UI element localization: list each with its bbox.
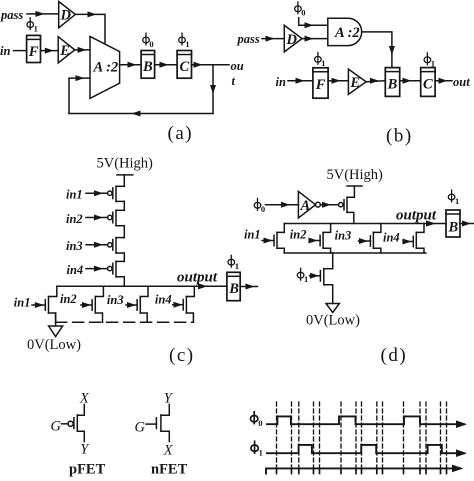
wire in to F xyxy=(14,50,27,52)
wire E to A:2 xyxy=(75,49,90,51)
svg-text:(a): (a) xyxy=(168,123,194,144)
buffer D (b) xyxy=(284,25,302,52)
wire B output (d) xyxy=(460,223,474,225)
wire phi0 to A:2 xyxy=(299,18,328,26)
latch B (b) xyxy=(385,68,399,97)
wire in to F xyxy=(288,80,313,82)
clock label phi1 over F (b) xyxy=(315,52,322,64)
clock label phi1 over C xyxy=(179,33,186,45)
svg-text:G: G xyxy=(135,420,146,436)
transistor nFET in2 (d) xyxy=(310,240,320,242)
timing slot dashed line 13 xyxy=(425,402,427,471)
svg-text:E: E xyxy=(349,75,360,91)
svg-text:1: 1 xyxy=(259,448,263,458)
timing slot dashed line 5 xyxy=(319,402,321,471)
svg-text:0: 0 xyxy=(261,204,265,214)
svg-text:in2: in2 xyxy=(290,228,307,242)
ground 0V(Low) (d) xyxy=(326,304,339,313)
wire pass to D xyxy=(262,38,284,40)
svg-text:in1: in1 xyxy=(66,188,83,202)
latch F (b) xyxy=(313,68,328,98)
svg-text:B: B xyxy=(142,59,153,75)
svg-text:0V(Low): 0V(Low) xyxy=(27,337,81,353)
svg-text:Y: Y xyxy=(80,442,90,458)
latch F (a) xyxy=(27,35,41,62)
timing slot dashed line 2 xyxy=(291,402,293,471)
transistor nFET in2 (c) xyxy=(81,304,92,306)
wire A:2 to B top xyxy=(362,32,392,68)
transistor nFET in3 (c) xyxy=(126,304,137,306)
wire pFET2 to pFET3 xyxy=(123,226,125,238)
svg-text:G: G xyxy=(51,419,62,435)
wire B to C xyxy=(400,80,421,82)
svg-text:5V(High): 5V(High) xyxy=(97,156,154,172)
wire feedback bottom xyxy=(69,113,213,115)
svg-text:in4: in4 xyxy=(155,293,172,307)
timing slot dashed line 12 xyxy=(419,402,421,471)
wire feedback up to A:2 xyxy=(69,78,90,113)
transistor pFET in2 (c) xyxy=(86,217,107,219)
wire pFET4 to output rail xyxy=(123,277,125,287)
clock label phi1 (d) xyxy=(297,268,304,280)
timing slot dashed line 10 xyxy=(382,402,384,471)
wire 5V to pFET1 xyxy=(123,175,125,186)
clock label phi0 (d) xyxy=(254,198,261,210)
svg-text:in3: in3 xyxy=(107,293,124,307)
timing slot dashed line 6 xyxy=(340,402,342,471)
svg-text:in: in xyxy=(0,44,10,58)
transistor nFET phi1 (d) xyxy=(310,275,321,277)
svg-text:A :2: A :2 xyxy=(93,60,119,76)
mux A:2 (a) xyxy=(90,36,120,98)
transistor nFET in3 (d) xyxy=(359,240,371,242)
timing slot dashed line 7 xyxy=(355,402,357,471)
timing slot dashed line 4 xyxy=(313,402,315,471)
svg-text:F: F xyxy=(315,77,326,93)
clock label phi1 over B (c) xyxy=(228,255,235,267)
svg-text:B: B xyxy=(448,220,459,236)
svg-text:D: D xyxy=(286,32,298,48)
transistor pFET in1 (c) xyxy=(86,192,107,194)
waveform phi1 xyxy=(267,445,464,453)
svg-text:E: E xyxy=(59,43,70,59)
svg-text:pass: pass xyxy=(0,8,23,22)
svg-text:0: 0 xyxy=(301,8,305,18)
latch B (c) xyxy=(227,272,240,300)
svg-text:1: 1 xyxy=(34,24,38,34)
wire F to E xyxy=(328,80,348,82)
svg-text:(b): (b) xyxy=(386,126,413,147)
transistor pFET legend symbol xyxy=(77,405,84,416)
svg-text:C: C xyxy=(423,77,433,93)
svg-text:0V(Low): 0V(Low) xyxy=(306,313,360,329)
inverter A (d) xyxy=(298,191,315,218)
and-gate A:2 (b) xyxy=(328,18,362,45)
latch C (b) xyxy=(421,68,435,97)
timing slot dashed line 8 xyxy=(361,402,363,471)
clock label phi1 (timing) xyxy=(251,441,258,453)
clock label phi1 over B (d) xyxy=(448,190,455,202)
wire E to B xyxy=(366,81,385,82)
svg-text:X: X xyxy=(163,443,174,459)
wire feedback down from out node xyxy=(212,65,214,114)
ground 0V(Low) (c) xyxy=(55,313,57,326)
wire rail to clock nFET xyxy=(332,253,334,269)
svg-text:pFET: pFET xyxy=(69,462,106,478)
wire C to out xyxy=(192,64,230,66)
wire C to out xyxy=(435,80,452,82)
svg-text:(c): (c) xyxy=(169,345,195,366)
svg-text:(d): (d) xyxy=(381,345,408,366)
transistor nFET in1 (d) xyxy=(262,240,274,242)
svg-text:F: F xyxy=(28,44,39,60)
wire inverter to pFET gate xyxy=(320,204,338,206)
svg-text:A :2: A :2 xyxy=(334,25,360,41)
transistor pFET in4 (c) xyxy=(86,268,107,270)
svg-text:in2: in2 xyxy=(60,292,77,306)
node output line (d) xyxy=(284,223,446,225)
buffer E (b) xyxy=(348,69,366,94)
svg-text:nFET: nFET xyxy=(151,462,188,478)
svg-text:output: output xyxy=(396,208,437,224)
svg-text:0: 0 xyxy=(149,39,153,49)
transistor nFET in4 (d) xyxy=(403,241,413,243)
svg-text:B: B xyxy=(387,77,398,93)
wire B output (c) xyxy=(240,286,257,288)
svg-text:1: 1 xyxy=(185,39,189,49)
latch C (a) xyxy=(177,51,191,79)
svg-text:in2: in2 xyxy=(66,212,83,226)
svg-text:t: t xyxy=(232,74,236,88)
timing slot dashed line 15 xyxy=(446,402,448,471)
clock label phi1 over F xyxy=(27,18,34,30)
waveform phi0 xyxy=(267,416,464,424)
wire pass to D xyxy=(27,13,59,15)
wire D to A:2 top xyxy=(75,14,105,43)
wire D to A:2 xyxy=(302,38,328,40)
svg-text:1: 1 xyxy=(321,58,325,68)
svg-text:out: out xyxy=(453,75,470,89)
svg-text:B: B xyxy=(228,281,239,297)
wire F to E xyxy=(41,50,59,52)
wire source rail (c) xyxy=(56,321,194,323)
time axis ticks xyxy=(277,468,447,473)
svg-text:0: 0 xyxy=(258,418,262,428)
svg-text:output: output xyxy=(177,270,218,286)
timing slot dashed line 3 xyxy=(298,402,300,471)
wire phi0 to inverter A xyxy=(266,204,299,206)
waveform time axis (clipped third clock) xyxy=(266,468,460,473)
svg-text:A: A xyxy=(300,198,311,214)
svg-text:ou: ou xyxy=(231,59,244,73)
svg-text:1: 1 xyxy=(455,196,459,206)
latch B (d) xyxy=(446,210,460,237)
svg-text:pass: pass xyxy=(237,32,260,46)
timing slot dashed line 11 xyxy=(403,402,405,471)
svg-text:C: C xyxy=(180,59,190,75)
svg-text:in: in xyxy=(276,75,286,89)
wire A:2 to B xyxy=(120,64,142,66)
transistor nFET in1 (c) xyxy=(32,304,45,306)
svg-text:in4: in4 xyxy=(383,231,400,245)
svg-text:in1: in1 xyxy=(14,296,31,310)
clock label phi0 over B xyxy=(143,33,150,45)
node output rail (c) xyxy=(57,285,227,287)
clock label phi1 over C (b) xyxy=(424,53,431,65)
wire pFET3 to pFET4 xyxy=(123,253,125,261)
buffer E (a) xyxy=(58,37,75,63)
transistor pFET precharge (d) xyxy=(339,203,343,207)
clock label phi0 (timing) xyxy=(251,412,258,424)
svg-text:5V(High): 5V(High) xyxy=(327,167,384,183)
timing slot dashed line 9 xyxy=(376,402,378,471)
clock label phi0 (b) xyxy=(295,2,302,14)
svg-text:D: D xyxy=(60,8,72,24)
svg-text:in1: in1 xyxy=(244,228,261,242)
wire B to C xyxy=(155,64,178,66)
wire source rail (d) xyxy=(284,252,426,254)
svg-text:in3: in3 xyxy=(335,229,352,243)
transistor pFET in3 (c) xyxy=(86,244,107,246)
timing slot dashed line 1 xyxy=(276,402,278,471)
svg-text:in3: in3 xyxy=(66,239,83,253)
transistor nFET legend symbol xyxy=(161,405,169,416)
timing slot dashed line 14 xyxy=(440,402,442,471)
latch B (a) xyxy=(141,51,155,79)
svg-text:1: 1 xyxy=(235,261,239,271)
transistor nFET in4 (c) xyxy=(173,304,184,306)
wire pFET1 to pFET2 xyxy=(123,201,125,210)
svg-text:in4: in4 xyxy=(67,263,84,277)
svg-text:1: 1 xyxy=(304,274,308,284)
buffer D xyxy=(59,2,76,28)
